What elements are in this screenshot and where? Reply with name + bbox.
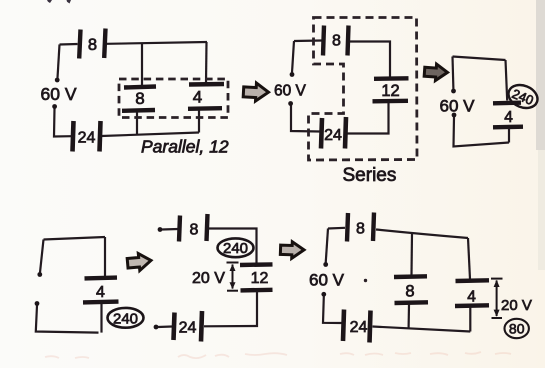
capacitor 12 plates xyxy=(373,78,409,101)
wire: bottom-left to 60V lower terminal xyxy=(54,109,72,137)
block arrow 1 xyxy=(243,82,269,101)
svg-text:20 V: 20 V xyxy=(501,297,532,314)
node: 60 V top terminal xyxy=(323,262,328,267)
node: open terminal bottom xyxy=(35,301,40,306)
wire: top stub to capacitor 8 xyxy=(294,39,322,42)
capacitor 4 (inside dashed box) plates xyxy=(188,84,224,109)
capacitor 24 plates xyxy=(321,117,346,149)
wire: from 4 bottom plate down to bottom wire xyxy=(100,304,102,333)
wire: from capacitor 24 left to 60V lower terminal xyxy=(291,106,320,132)
wire: top horizontal xyxy=(453,57,506,61)
node: 60 V bottom terminal xyxy=(288,101,293,106)
dimension arrow for 20 V xyxy=(491,279,503,318)
result bubble 80 xyxy=(505,319,529,338)
wire: left vertical from top corner down to 60V top terminal xyxy=(58,45,60,79)
wire: junction drop to middle capacitor 8 xyxy=(410,233,413,275)
svg-text:Series: Series xyxy=(343,165,397,186)
dashed grouping box (series set) xyxy=(309,18,418,161)
wire: left vertical above 60V xyxy=(292,41,294,73)
node: 60 V top terminal xyxy=(451,89,456,94)
svg-text:8: 8 xyxy=(332,33,341,50)
svg-text:8: 8 xyxy=(135,89,144,108)
wire: drop to parallel capacitor 8 xyxy=(141,44,143,86)
wire: from capacitor 8 bottom plate down xyxy=(136,112,138,135)
wire: bottom horizontal xyxy=(102,133,200,137)
svg-text:12: 12 xyxy=(251,270,269,287)
wire: top horizontal xyxy=(44,237,106,240)
capacitor 4 plates xyxy=(493,103,523,128)
svg-text:24: 24 xyxy=(324,127,342,144)
wire: left vertical to 60V top terminal xyxy=(451,57,454,90)
wire: from 24 right plate to corner and up to capacitor 12 xyxy=(204,292,257,327)
node: 60 V bottom terminal xyxy=(321,292,326,297)
wire: lower-left terminal down and bottom horizontal xyxy=(36,306,99,333)
svg-text:24: 24 xyxy=(179,320,197,337)
svg-text:80: 80 xyxy=(509,321,525,337)
wire: top horizontal with junction, slight sag to the right xyxy=(376,230,468,239)
wire: stub to capacitor 24 xyxy=(158,325,172,328)
cropped caption characters at top edge xyxy=(47,0,71,4)
wire: 60V bottom terminal down to bottom wire xyxy=(323,297,342,324)
svg-text:4: 4 xyxy=(193,88,202,107)
svg-text:8: 8 xyxy=(88,36,97,54)
page edge shading right xyxy=(536,0,545,150)
svg-text:4: 4 xyxy=(504,109,513,126)
svg-text:240: 240 xyxy=(223,240,248,257)
result bubble 240 xyxy=(505,81,541,112)
wire: right vertical down to capacitor 4 xyxy=(104,237,106,276)
wire: left vertical down to 60V top terminal xyxy=(326,229,328,264)
svg-text:4: 4 xyxy=(467,289,476,306)
dashed grouping box (parallel pair) xyxy=(119,79,228,118)
wire: bottom horizontal from 24 to right side xyxy=(373,327,471,332)
node: 60 V top terminal xyxy=(290,72,295,77)
svg-text:8: 8 xyxy=(190,222,199,239)
capacitor 8 (top of first circuit) plates xyxy=(79,29,105,59)
svg-text:60 V: 60 V xyxy=(41,84,77,104)
capacitor 4 plates xyxy=(83,278,119,303)
svg-text:20 V: 20 V xyxy=(192,270,225,287)
node: 60 V bottom terminal xyxy=(52,104,57,109)
capacitor 24 plates xyxy=(174,311,203,342)
capacitor 8 plates xyxy=(179,214,208,242)
wire: from 4 bottom plate to bottom wire xyxy=(508,129,510,143)
capacitor 4 (right, horizontal plates) xyxy=(455,280,489,306)
result bubble 240 xyxy=(108,308,144,328)
wire: from 8 right plate to corner and down to capacitor 12 xyxy=(209,229,257,265)
wire: left vertical to open terminal xyxy=(40,240,44,273)
wire: top-left stub to capacitor 8 xyxy=(60,43,78,46)
ink speck xyxy=(364,279,367,282)
capacitor 8 (middle, horizontal plates) xyxy=(394,276,428,303)
faint bleed-through marks bottom xyxy=(45,352,511,358)
wire: top horizontal to right side xyxy=(107,42,207,44)
block arrow 3 xyxy=(127,252,152,271)
wire: 60V bottom terminal down and bottom horizontal xyxy=(454,117,510,147)
capacitor 24 plates xyxy=(73,121,101,152)
svg-text:60 V: 60 V xyxy=(309,271,345,290)
capacitor 8 (top) plates xyxy=(347,213,374,242)
svg-text:24: 24 xyxy=(78,130,96,147)
svg-text:240: 240 xyxy=(113,310,138,327)
svg-text:8: 8 xyxy=(405,283,414,301)
svg-text:Parallel, 12: Parallel, 12 xyxy=(141,137,229,157)
wire: stub to capacitor 8 xyxy=(162,228,178,231)
capacitor 8 (inside dashed box) plates xyxy=(122,87,156,111)
block arrow 2 xyxy=(424,63,448,81)
svg-text:24: 24 xyxy=(350,319,368,336)
wire: drop to parallel capacitor 4 xyxy=(205,42,208,83)
svg-text:60 V: 60 V xyxy=(274,83,307,100)
capacitor 8 plates xyxy=(323,26,349,56)
svg-text:60 V: 60 V xyxy=(440,97,476,116)
capacitor 24 plates xyxy=(343,310,371,343)
wire: right bend down to capacitor 4 xyxy=(468,238,470,279)
wire: from capacitor 4 bottom plate down xyxy=(198,110,200,133)
wire: from 12 bottom plate down and left to capacitor 24 xyxy=(347,103,389,134)
svg-text:8: 8 xyxy=(356,221,365,238)
node: open terminal top xyxy=(37,272,42,277)
capacitor 12 plates xyxy=(240,264,273,290)
node: open terminal bottom xyxy=(154,325,159,330)
wire: from middle 8 bottom plate down to bottom wire xyxy=(408,305,411,328)
svg-text:4: 4 xyxy=(96,284,105,301)
wire: right vertical down to capacitor 4 xyxy=(506,60,508,101)
wire: top right to corner and down xyxy=(350,42,390,77)
dimension arrow for 20 V across capacitor 12 xyxy=(227,263,239,291)
wire: top-left corner stub xyxy=(328,227,345,230)
node: open terminal top xyxy=(158,227,163,232)
node: 60 V bottom terminal xyxy=(452,113,457,118)
block arrow 4 xyxy=(280,241,304,258)
result bubble 240 xyxy=(218,238,254,257)
node: 60 V top terminal xyxy=(55,78,60,83)
wire: from 4 bottom plate down to bottom wire xyxy=(469,308,471,332)
svg-text:12: 12 xyxy=(381,82,399,100)
